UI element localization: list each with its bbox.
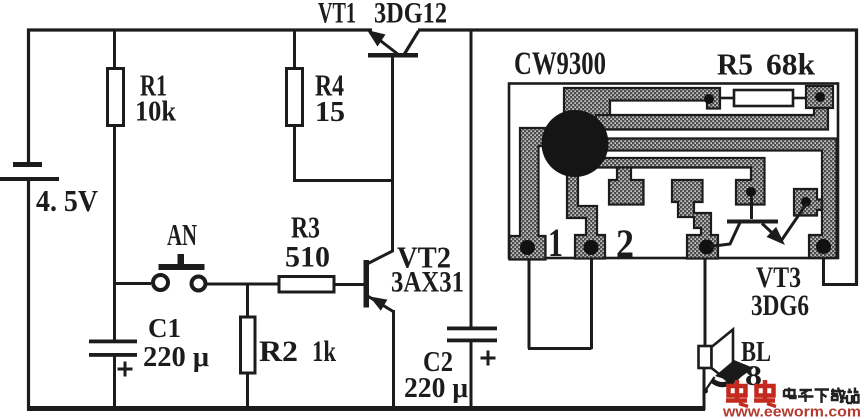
svg-text:AN: AN (167, 217, 197, 252)
wire R4 top lead (293, 30, 296, 68)
trace left vertical with pad 1 (510, 128, 547, 260)
svg-text:www.eeworm.com: www.eeworm.com (722, 404, 861, 419)
watermark site name characters (784, 388, 859, 404)
battery 4.5V long plate (0, 177, 59, 181)
speaker BL body (699, 346, 712, 368)
trace R5 right pad (806, 86, 833, 108)
wire pad 3 down to speaker (704, 258, 707, 347)
svg-text:R2: R2 (259, 335, 298, 368)
transistor VT1 collector line (404, 31, 419, 56)
watermark chongchong characters (726, 380, 776, 407)
speaker BL horn (712, 330, 734, 386)
transistor VT1 base lead down (391, 57, 394, 251)
wire R3 to VT2 base (334, 283, 365, 286)
button AN left contact (153, 275, 168, 290)
button AN bar (159, 264, 205, 270)
resistor R1 body (108, 69, 124, 126)
resistor R5 body (734, 90, 793, 106)
transistor VT3 base line to pad 3 (710, 223, 740, 247)
trace band C with right descender and pad 4 (590, 139, 837, 259)
svg-text:68k: 68k (766, 47, 816, 82)
wire top rail right segment (418, 28, 858, 31)
transistor VT2 emitter arrow (370, 297, 388, 311)
button AN right contact (192, 277, 206, 291)
transistor VT1 emitter line (377, 38, 399, 55)
wire R4 bottom lead (293, 125, 296, 181)
resistor R4 body (287, 69, 303, 126)
wire to button left contact (113, 282, 151, 285)
svg-text:3DG12: 3DG12 (374, 0, 447, 30)
transistor VT3 emitter arrow (767, 227, 786, 245)
transistor VT2 emitter line (369, 297, 395, 313)
bond dot VT3 emitter pad (801, 197, 811, 207)
wire speaker to bottom rail (703, 368, 706, 410)
wire right rail down to pad4 jumper (855, 29, 858, 286)
wire R5 left lead (720, 97, 734, 100)
transistor VT2 collector line (368, 251, 394, 264)
bond dot VT3 collector pad (746, 187, 756, 197)
trace band A (top, to R5) (564, 88, 720, 126)
IC module CW9300 outline (509, 84, 838, 259)
svg-text:2: 2 (616, 221, 634, 266)
wire C2 bottom lead (470, 342, 473, 410)
IC die blob (542, 110, 609, 177)
bond dot pad 4 (816, 239, 831, 254)
capacitor C2 plus sign (481, 351, 496, 366)
svg-text:3AX31: 3AX31 (391, 266, 464, 299)
transistor VT3 emitter line (762, 203, 807, 242)
resistor R2 body (241, 317, 256, 373)
trace band B (to R5 right pad) (596, 108, 828, 130)
svg-text:510: 510 (285, 241, 330, 274)
battery 4.5V short plate (13, 162, 42, 167)
wire C1 bottom lead (113, 356, 116, 410)
wire R2 bottom lead (246, 373, 249, 410)
svg-text:4. 5V: 4. 5V (36, 183, 99, 218)
resistor R3 body (279, 277, 334, 293)
trace stub and square pad (609, 168, 644, 205)
svg-text:220 μ: 220 μ (143, 342, 209, 373)
wire VT2 emitter to bottom rail (392, 310, 395, 410)
capacitor C2 bottom plate (447, 339, 497, 343)
capacitor C2 top plate (447, 327, 497, 331)
bond dot pad 2 (584, 240, 599, 255)
wire left rail lower (battery to bottom) (27, 180, 30, 410)
wire R1 top lead (113, 30, 116, 68)
bond dot pad 3 (699, 240, 714, 255)
svg-text:C1: C1 (148, 313, 181, 343)
wire pad 1 down (528, 258, 531, 349)
bond dot pad 1 (520, 240, 535, 255)
transistor VT2 base bar (364, 260, 370, 308)
wire C2 branch from top rail (470, 30, 473, 327)
svg-text:CW9300: CW9300 (514, 46, 606, 82)
trace from die bottom with pad 2 (567, 172, 605, 259)
svg-text:220 μ: 220 μ (404, 373, 468, 404)
wire button to R3 (207, 283, 280, 286)
svg-text:VT1: VT1 (318, 0, 356, 30)
wire pad 4 down and right to rail (822, 258, 858, 285)
trace middle pad with Z trace and pad 3 (672, 180, 718, 259)
svg-text:3DG6: 3DG6 (751, 289, 809, 322)
wire left rail upper (to battery) (27, 29, 30, 164)
trace band D with VT3 collector pad (596, 158, 765, 205)
button AN stem (178, 254, 185, 264)
svg-text:10k: 10k (135, 96, 177, 128)
bond dot pad A (704, 94, 714, 104)
svg-text:R5: R5 (717, 47, 753, 82)
capacitor C1 bottom plate (89, 353, 137, 357)
svg-text:1k: 1k (312, 335, 336, 368)
bond dot R5 right pad (815, 92, 825, 102)
transistor VT1 emitter arrow (367, 30, 386, 47)
wire pad1-pad2 jumper (528, 347, 592, 350)
trace emitter pad of VT3 (794, 189, 822, 216)
transistor VT3 base bar (727, 220, 778, 224)
wire R1 bottom lead down to C1 (113, 125, 116, 340)
transistor VT3 collector lead (750, 197, 753, 219)
wire R2 top lead (246, 284, 249, 317)
wire R4 to VT1 base line (293, 179, 394, 182)
capacitor C1 plus sign (118, 362, 133, 377)
svg-text:1: 1 (548, 220, 563, 265)
svg-text:15: 15 (315, 96, 345, 128)
transistor VT1 base bar (368, 53, 418, 58)
wire R5 right lead (793, 97, 807, 100)
wire pad 2 down (590, 258, 593, 349)
wire bottom rail (27, 406, 705, 411)
capacitor C1 top plate (89, 340, 137, 344)
watermark mortarboard cap (703, 360, 754, 394)
svg-text:R3: R3 (291, 210, 320, 245)
wire top rail left segment (27, 28, 372, 31)
